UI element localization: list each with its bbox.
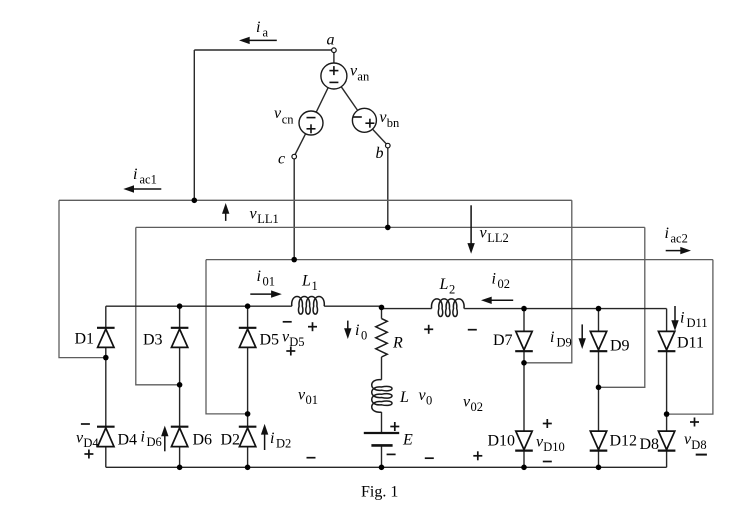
node col2 mid bbox=[177, 382, 183, 388]
node b terminal bbox=[386, 143, 391, 148]
svg-text:i: i bbox=[665, 225, 669, 242]
leg column6 D11/D8 bbox=[666, 309, 668, 332]
svg-text:D11: D11 bbox=[687, 316, 708, 330]
node col5 mid bbox=[596, 385, 602, 391]
svg-text:E: E bbox=[402, 432, 413, 449]
wire van to vcn bbox=[316, 88, 328, 113]
minus vD4 top bbox=[81, 423, 90, 425]
diode D6 bbox=[171, 427, 189, 447]
svg-text:D9: D9 bbox=[557, 336, 572, 350]
wire stub node a to source van bbox=[333, 52, 335, 63]
node rail col4 bbox=[521, 306, 527, 312]
svg-text:i: i bbox=[550, 329, 554, 346]
arrow i_D11 down bbox=[671, 306, 678, 331]
wire b-line down to bus2 bbox=[387, 148, 389, 228]
svg-text:Fig. 1: Fig. 1 bbox=[361, 484, 398, 501]
svg-text:ac2: ac2 bbox=[671, 232, 688, 246]
wire R to L bbox=[381, 357, 383, 380]
plus L1 right bbox=[308, 326, 317, 328]
svg-text:D9: D9 bbox=[610, 338, 630, 355]
svg-text:L: L bbox=[301, 273, 311, 290]
leg column4 D7/D10 bbox=[523, 309, 525, 332]
node col3 mid bbox=[245, 411, 251, 417]
node col4 mid bbox=[521, 360, 527, 366]
diode D2 bbox=[239, 427, 257, 447]
wire bus1 right drop bbox=[524, 200, 572, 362]
svg-text:D5: D5 bbox=[260, 332, 280, 349]
source vbn bbox=[352, 108, 376, 132]
node rail col2 bbox=[177, 303, 183, 309]
wire bus3 left drop bbox=[206, 260, 248, 414]
svg-text:D8: D8 bbox=[640, 436, 660, 453]
svg-text:D6: D6 bbox=[147, 435, 162, 449]
leg column3 D5/D2 bbox=[247, 306, 249, 328]
node bottom col5 bbox=[596, 465, 602, 471]
node bottom col2 bbox=[177, 465, 183, 471]
wire bus1 left drop bbox=[59, 200, 106, 357]
diode D4 bbox=[97, 427, 115, 447]
arrow i_D9 down bbox=[579, 324, 586, 349]
svg-text:1: 1 bbox=[312, 279, 318, 293]
minus vD10 bottom bbox=[543, 461, 552, 463]
svg-text:i: i bbox=[355, 322, 359, 339]
battery E plate short bbox=[371, 444, 392, 447]
svg-text:D6: D6 bbox=[193, 432, 213, 449]
leg column1 D1/D4 bbox=[105, 306, 107, 328]
wire bus2 left drop bbox=[136, 227, 180, 384]
wire vcn to node c bbox=[295, 134, 306, 155]
plus vD4 bottom bbox=[84, 453, 93, 455]
diode D3 bbox=[171, 328, 189, 348]
minus L1 left bbox=[283, 321, 292, 323]
bottom rail bbox=[106, 466, 667, 468]
wire battery to bottom rail bbox=[381, 445, 383, 467]
diode D12 bbox=[590, 431, 608, 451]
svg-text:cn: cn bbox=[282, 113, 295, 127]
svg-text:an: an bbox=[357, 69, 370, 83]
svg-text:i: i bbox=[256, 19, 260, 36]
diode D11 bbox=[658, 331, 676, 351]
svg-text:R: R bbox=[392, 335, 403, 352]
arrow i_01 right bbox=[250, 290, 281, 297]
svg-text:02: 02 bbox=[471, 400, 484, 414]
node bottom col3 bbox=[245, 465, 251, 471]
plus vD10 top bbox=[543, 423, 552, 425]
svg-text:D1: D1 bbox=[75, 331, 95, 348]
plus L2 left bbox=[424, 328, 433, 330]
svg-text:D8: D8 bbox=[691, 438, 706, 452]
node a terminal bbox=[332, 48, 337, 53]
svg-text:D4: D4 bbox=[83, 436, 99, 450]
node rail col3 bbox=[245, 303, 251, 309]
svg-text:D2: D2 bbox=[221, 432, 241, 449]
wire bus2 right drop bbox=[599, 227, 645, 387]
minus battery below bbox=[387, 453, 396, 455]
plus below vD5 bbox=[286, 350, 295, 352]
node bottom center bbox=[379, 465, 385, 471]
svg-text:i: i bbox=[680, 310, 684, 327]
svg-text:L: L bbox=[439, 276, 449, 293]
svg-text:L: L bbox=[399, 389, 409, 406]
svg-text:a: a bbox=[327, 32, 335, 49]
node c terminal bbox=[292, 154, 297, 159]
leg column2 D3/D6 bbox=[179, 306, 181, 328]
svg-text:i: i bbox=[133, 166, 137, 183]
wire c-line down to bus3 bbox=[293, 159, 295, 260]
svg-text:LL2: LL2 bbox=[487, 231, 509, 245]
svg-text:0: 0 bbox=[361, 329, 367, 343]
bus2 phase-b horizontal bbox=[136, 226, 645, 228]
node center junction bbox=[379, 305, 385, 311]
svg-text:b: b bbox=[376, 145, 384, 162]
wire center branch top bbox=[381, 307, 383, 318]
node c-line/bus3 bbox=[291, 257, 297, 263]
svg-text:D12: D12 bbox=[610, 433, 638, 450]
arrow v_LL1 up bbox=[222, 203, 229, 221]
top rail right bbox=[382, 308, 432, 310]
wire L to battery bbox=[381, 412, 383, 433]
wire a vertical drop to bus1 bbox=[193, 50, 195, 200]
top rail left bbox=[106, 305, 292, 307]
diode D5 bbox=[239, 328, 257, 348]
arrow i_ac2 right bbox=[666, 247, 691, 254]
arrow i_D6 up bbox=[161, 426, 168, 452]
wire bus3 right drop bbox=[667, 260, 713, 415]
arrow i_02 left bbox=[481, 297, 513, 304]
battery E plate long bbox=[364, 432, 399, 434]
svg-text:01: 01 bbox=[263, 275, 276, 289]
arrow i_ac1 bbox=[123, 185, 161, 192]
arrow v_LL2 down bbox=[467, 205, 474, 254]
diode D10 bbox=[515, 431, 533, 451]
arrow i_D2 up bbox=[261, 424, 268, 450]
plus battery bbox=[390, 426, 399, 428]
node col1 mid bbox=[103, 355, 109, 361]
node bottom col4 bbox=[521, 465, 527, 471]
inductor L vertical bbox=[372, 380, 392, 413]
minus vD8 bottom bbox=[696, 454, 707, 456]
source van bbox=[321, 63, 347, 89]
node b-line/bus2 bbox=[385, 225, 391, 231]
svg-text:LL1: LL1 bbox=[257, 212, 279, 226]
minus L2 right bbox=[468, 329, 477, 331]
svg-text:c: c bbox=[278, 151, 285, 168]
svg-text:0: 0 bbox=[426, 394, 432, 408]
svg-text:D7: D7 bbox=[493, 332, 513, 349]
svg-text:i: i bbox=[141, 429, 145, 446]
arrow i_0 down bbox=[344, 321, 351, 339]
svg-text:bn: bn bbox=[387, 116, 400, 130]
diode D7 bbox=[515, 331, 533, 351]
bus1 phase-a horizontal bbox=[59, 199, 572, 201]
minus v01 bottom bbox=[307, 457, 316, 459]
source vcn bbox=[299, 111, 323, 135]
svg-text:01: 01 bbox=[306, 393, 319, 407]
diode D1 bbox=[97, 328, 115, 348]
wire van to vbn bbox=[341, 87, 357, 111]
svg-text:D2: D2 bbox=[276, 437, 291, 451]
svg-text:D3: D3 bbox=[143, 332, 163, 349]
bus3 phase-c horizontal bbox=[206, 259, 713, 261]
resistor R zigzag bbox=[376, 319, 388, 357]
wire a horizontal from corner to node a bbox=[194, 49, 331, 51]
svg-text:i: i bbox=[270, 430, 274, 447]
node col6 mid bbox=[664, 411, 670, 417]
inductor L2 bbox=[431, 299, 464, 317]
svg-text:D11: D11 bbox=[677, 335, 704, 352]
wire vbn to node b bbox=[373, 129, 387, 144]
svg-text:i: i bbox=[257, 268, 261, 285]
leg column5 D9/D12 bbox=[598, 309, 600, 332]
node a-line/bus1 bbox=[192, 198, 198, 204]
svg-text:D10: D10 bbox=[488, 433, 516, 450]
svg-text:a: a bbox=[263, 26, 269, 40]
inductor L1 bbox=[292, 296, 325, 314]
plus vD8 top bbox=[690, 421, 699, 423]
svg-text:D5: D5 bbox=[289, 335, 304, 349]
diode D8 bbox=[658, 431, 676, 451]
diode D9 bbox=[590, 331, 608, 351]
svg-text:D4: D4 bbox=[118, 432, 138, 449]
arrow i_a bbox=[239, 37, 277, 44]
svg-text:D10: D10 bbox=[543, 440, 565, 454]
node rail col5 bbox=[596, 306, 602, 312]
plus v02 bottom bbox=[473, 455, 482, 457]
minus v0 bottom bbox=[425, 457, 434, 459]
svg-text:i: i bbox=[492, 271, 496, 288]
svg-text:ac1: ac1 bbox=[140, 173, 157, 187]
svg-text:2: 2 bbox=[449, 283, 455, 297]
svg-text:02: 02 bbox=[498, 277, 511, 291]
